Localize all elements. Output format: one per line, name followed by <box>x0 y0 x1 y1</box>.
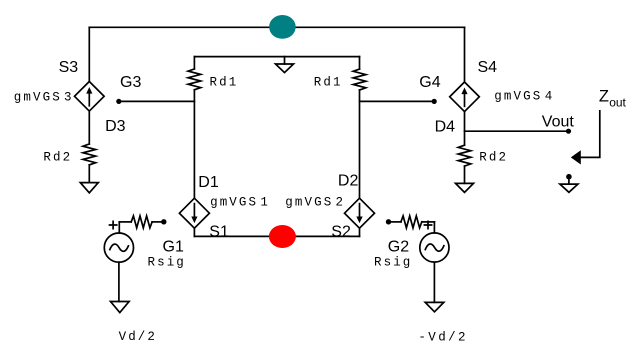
node G2 gate dot <box>386 219 391 224</box>
svg-text:D4: D4 <box>435 119 456 136</box>
arrowhead gmVGS2 <box>356 217 362 224</box>
current source U3 diamond gmVGS3 <box>75 82 105 112</box>
svg-text:D2: D2 <box>338 173 359 190</box>
svg-text:D1: D1 <box>198 174 219 191</box>
wire V1 bottom to ground <box>118 262 120 301</box>
wire top rail <box>89 26 464 28</box>
svg-text:Rsig: Rsig <box>374 255 412 269</box>
arrowhead gmVGS4 <box>461 88 467 95</box>
svg-text:-Vd/2: -Vd/2 <box>418 331 468 345</box>
svg-text:Vd/2: Vd/2 <box>119 330 157 344</box>
wire bottom rail S1 to S2 <box>194 235 359 237</box>
svg-text:Rd2: Rd2 <box>479 151 508 165</box>
svg-text:Rd1: Rd1 <box>314 76 343 90</box>
svg-text:G4: G4 <box>419 74 440 91</box>
wire left column from top rail to S3 source top <box>88 27 90 81</box>
svg-text:gmVGS3: gmVGS3 <box>14 91 74 105</box>
wire Rd2 left bottom to ground <box>88 165 90 183</box>
wire D4 junction to Vout node <box>465 130 569 132</box>
svg-text:G2: G2 <box>388 239 409 256</box>
wire D1 diamond bottom stub to bottom rail <box>193 228 195 236</box>
svg-text:D3: D3 <box>105 118 126 135</box>
svg-text:Z: Z <box>599 87 609 105</box>
wire V1 top stub <box>118 222 120 233</box>
teal node marker on top rail <box>269 15 296 39</box>
wire Rd1 right top stub <box>359 57 361 70</box>
node G3 junction dot <box>116 99 121 104</box>
wire Rsig right to V2 stub <box>422 221 435 223</box>
node Vout dot <box>566 129 571 134</box>
arrow up inside gmVGS4 <box>464 93 466 106</box>
wire D2 diamond bottom stub to bottom rail <box>359 228 361 236</box>
svg-text:S2: S2 <box>331 223 351 240</box>
wire Rd2 right bottom to ground <box>464 166 466 183</box>
svg-text:gmVGS1: gmVGS1 <box>210 196 270 210</box>
svg-text:G3: G3 <box>120 74 141 91</box>
wire inner top rail between Rd1 tops <box>194 56 359 58</box>
wire Rd1 right bottom through node G4 junction to D2 diamond top <box>359 90 361 198</box>
sine symbol in V1 <box>110 244 129 251</box>
arrow down inside gmVGS1 <box>193 204 195 217</box>
wire Rd1 left bottom through node G3 junction to D1 diamond top <box>193 90 195 198</box>
red node marker on bottom rail <box>269 225 296 248</box>
arrowhead gmVGS1 <box>191 217 197 224</box>
ground below Zout arrow stem <box>568 180 570 185</box>
svg-text:Rsig: Rsig <box>148 255 186 269</box>
arrowhead gmVGS3 <box>86 87 92 94</box>
svg-text:gmVGS4: gmVGS4 <box>494 90 554 104</box>
wire Rsig left to node G1 dot <box>152 221 161 223</box>
node G1 gate dot <box>161 219 166 224</box>
svg-text:Rd1: Rd1 <box>210 76 239 90</box>
svg-text:G1: G1 <box>163 239 184 256</box>
ground top center stem <box>284 57 286 64</box>
dot above Zout ground <box>566 174 572 180</box>
resistor Rd1 right zigzag <box>353 69 366 90</box>
wire node G3 to left Rd1 branch <box>119 100 195 102</box>
svg-text:Vout: Vout <box>542 114 575 131</box>
resistor Rsig left zigzag <box>131 216 152 228</box>
ground below Zout arrow triangle <box>560 184 578 192</box>
source V2 circle <box>420 233 449 262</box>
resistor Rd2 left zigzag <box>83 144 96 165</box>
svg-text:S1: S1 <box>209 223 229 240</box>
svg-text:gmVGS2: gmVGS2 <box>285 196 345 210</box>
ground below V2 triangle <box>425 302 444 311</box>
ground below Rd2 left triangle <box>80 183 98 193</box>
resistor Rsig right zigzag <box>401 216 422 228</box>
resistor Rd2 right zigzag <box>458 145 471 166</box>
ground below V1 triangle <box>111 302 130 313</box>
sine symbol in V2 <box>425 244 444 251</box>
wire source V1 plus lead to Rsig left <box>119 221 131 223</box>
arrow down inside gmVGS2 <box>359 204 361 217</box>
svg-text:out: out <box>609 96 626 110</box>
svg-text:S4: S4 <box>478 59 498 76</box>
wire node G4 from right Rd1 branch <box>360 100 435 102</box>
wire S3 bottom to Rd2 left top <box>88 111 90 144</box>
plus sign at V2 <box>424 221 431 228</box>
wire S4 bottom through D4 junction to Rd2 right top <box>464 111 466 145</box>
arrow up inside gmVGS3 <box>88 93 90 106</box>
node G4 junction dot <box>432 99 437 104</box>
ground below Rd2 right triangle <box>456 183 474 192</box>
resistor Rd1 left zigzag <box>188 69 201 90</box>
current source U2 diamond gmVGS2 <box>345 198 375 228</box>
wire V2 bottom to ground <box>433 262 435 302</box>
wire right column from top rail to S4 source top <box>464 27 466 82</box>
current source U1 diamond gmVGS1 <box>179 198 209 228</box>
svg-text:Rd2: Rd2 <box>43 150 72 164</box>
wire V2 top stub <box>433 222 435 233</box>
svg-text:S3: S3 <box>59 59 79 76</box>
source V1 circle <box>104 233 133 262</box>
wire node G2 dot to Rsig right <box>391 221 401 223</box>
arrowhead Zout probe <box>571 150 581 164</box>
wire Rd1 left top stub <box>193 57 195 69</box>
plus sign at V1 <box>110 221 117 228</box>
Zout probe bent wire <box>581 111 600 158</box>
current source U4 diamond gmVGS4 <box>450 82 480 112</box>
ground top center triangle <box>276 64 294 73</box>
